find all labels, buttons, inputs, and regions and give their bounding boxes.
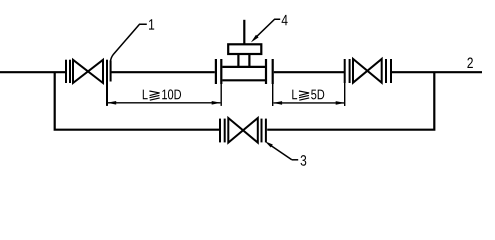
wire: main pipe left segment <box>0 71 65 73</box>
wire: bypass bottom right segment and right riser <box>267 72 434 130</box>
flow meter U4 (turbine flowmeter, item 4) <box>216 20 273 84</box>
dimension text L>=10D: letter L <box>143 90 148 100</box>
label 4 <box>282 15 288 25</box>
leader to label 3 <box>265 141 298 160</box>
wire: main pipe between meter and valve 2 <box>274 71 345 73</box>
dimension text L>=10D: 10D <box>162 89 181 99</box>
wire: main pipe between valve 1 and meter <box>111 71 215 73</box>
leader line to label 1 <box>111 24 147 61</box>
dimension text L>=5D: greater-equal symbol <box>299 91 309 100</box>
dimension L>=10D: extension line, dimension line, arrowheads <box>107 84 221 106</box>
dimension text L>=5D: 5D <box>311 90 324 100</box>
dimension text L>=5D: letter L <box>292 90 297 100</box>
dimension L>=5D: extension lines, dimension line, arrowheads <box>273 83 345 106</box>
wire: main pipe right segment <box>391 71 482 73</box>
dimension text L>=10D: greater-equal symbol <box>149 91 159 100</box>
label 2 <box>467 58 472 68</box>
label 1 <box>149 19 154 29</box>
label 3 <box>301 155 307 166</box>
valve V1 (gate valve, item 1) <box>66 60 111 106</box>
valve V2 (gate valve, right) <box>345 59 391 83</box>
leader with arrowhead to label 4 <box>251 19 280 42</box>
wire: bypass left drop and bottom left segment <box>55 72 220 130</box>
valve V3 (bypass gate valve, item 3) <box>220 118 266 143</box>
